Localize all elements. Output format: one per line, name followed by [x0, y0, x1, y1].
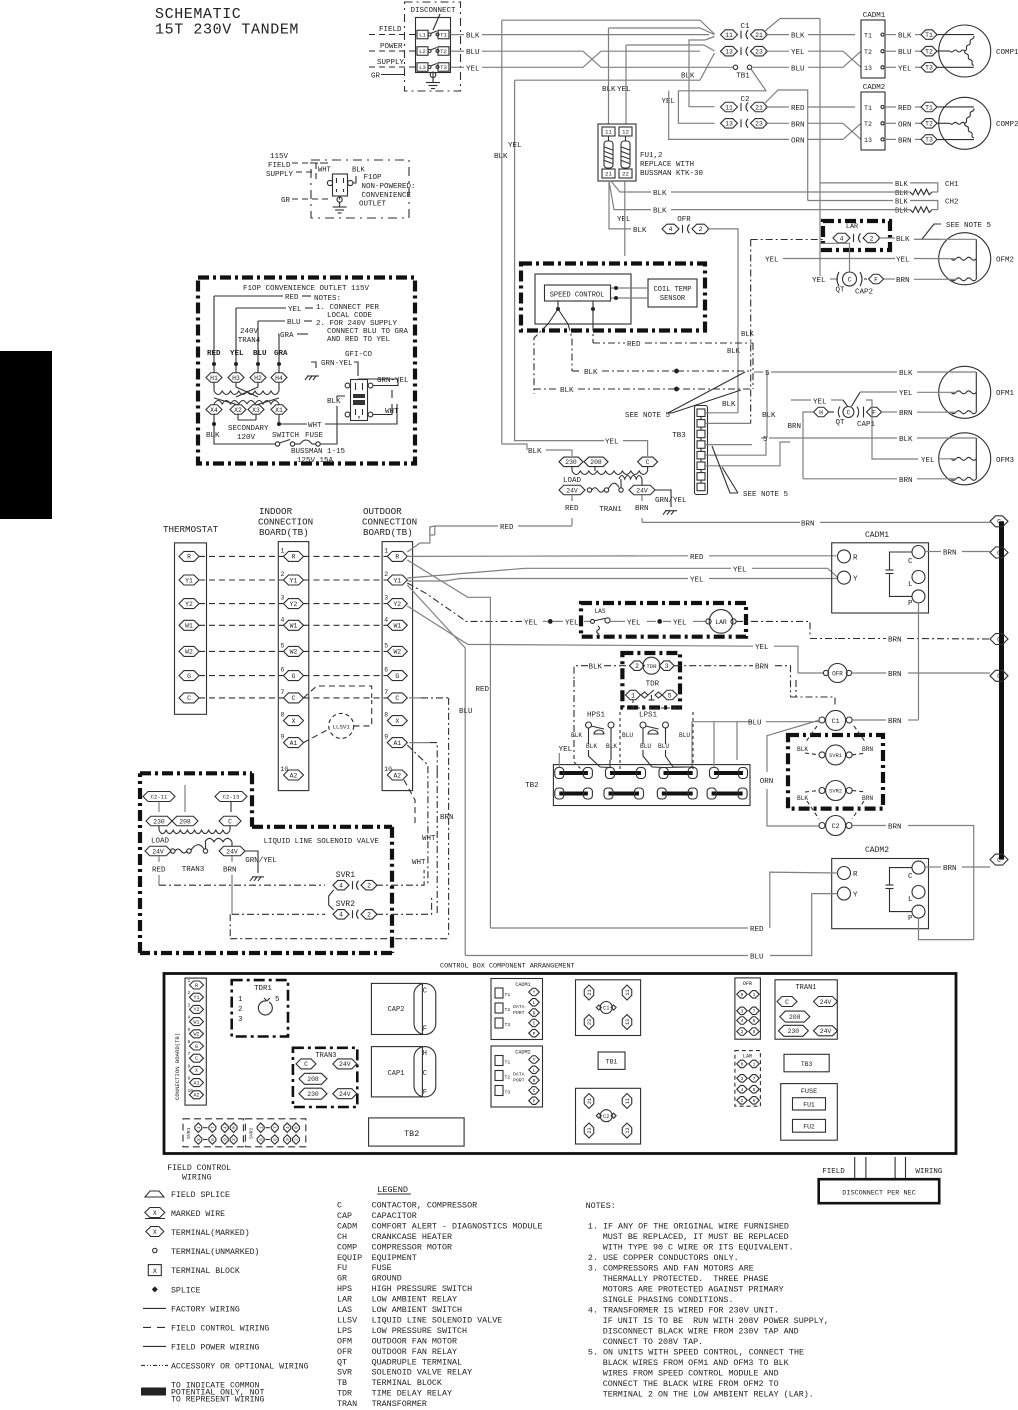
svg-text:BLK: BLK — [895, 190, 909, 198]
svg-text:T2: T2 — [864, 121, 872, 128]
svg-text:SVR: SVR — [337, 1368, 352, 1378]
svg-text:DISCONNECT PER NEC: DISCONNECT PER NEC — [842, 1190, 915, 1198]
svg-text:2: 2 — [188, 990, 191, 996]
svg-text:23: 23 — [587, 1127, 593, 1133]
wire YEL upper to CADM1 Y — [407, 568, 731, 578]
svg-text:BLK: BLK — [466, 33, 480, 41]
svg-text:CONNECT TO 208V TAP.: CONNECT TO 208V TAP. — [603, 1337, 704, 1347]
svg-text:BRN: BRN — [791, 121, 805, 129]
svg-text:H3: H3 — [232, 375, 240, 382]
svg-text:8: 8 — [197, 1138, 202, 1141]
TRAN3 primary winding — [158, 826, 160, 830]
svg-text:11: 11 — [725, 104, 733, 111]
svg-text:CAPACITOR: CAPACITOR — [372, 1211, 417, 1221]
svg-text:COMPRESSOR MOTOR: COMPRESSOR MOTOR — [372, 1242, 452, 1252]
svg-text:21: 21 — [755, 104, 763, 111]
svg-text:6: 6 — [281, 667, 285, 674]
svg-text:BRN: BRN — [888, 671, 902, 679]
svg-text:FIELD: FIELD — [268, 162, 291, 170]
svg-text:HPS: HPS — [337, 1284, 352, 1294]
svg-text:C: C — [533, 1021, 536, 1027]
wire C1 out BLK — [765, 34, 789, 36]
svg-text:5: 5 — [668, 692, 672, 699]
svg-text:FIELD CONTROL WIRING: FIELD CONTROL WIRING — [171, 1325, 269, 1334]
quadruple terminal QT with CAP1 — [814, 407, 829, 417]
svg-text:R: R — [187, 554, 191, 561]
svg-text:230: 230 — [153, 818, 165, 825]
svg-text:YEL: YEL — [690, 577, 704, 585]
svg-text:208: 208 — [590, 459, 602, 466]
svg-text:CADM1: CADM1 — [863, 12, 886, 20]
wire C2 out RED — [765, 106, 789, 108]
svg-text:MUST BE REPLACED, IT MUST BE R: MUST BE REPLACED, IT MUST BE REPLACED — [603, 1232, 789, 1242]
CADM2 R terminal — [838, 867, 851, 880]
svg-text:2: 2 — [295, 1138, 300, 1141]
svg-text:BLU: BLU — [287, 319, 301, 327]
svg-text:BLK: BLK — [741, 331, 755, 339]
crankcase heater CH2 — [808, 200, 893, 202]
svg-text:BRN: BRN — [898, 137, 912, 145]
svg-text:C2: C2 — [603, 1114, 609, 1120]
svg-text:BLK: BLK — [586, 743, 597, 750]
module CADM1 in control box — [491, 979, 543, 1040]
svg-text:T3: T3 — [505, 1090, 511, 1096]
svg-text:CAP: CAP — [337, 1211, 352, 1221]
svg-text:13: 13 — [625, 1019, 631, 1025]
wire from R down to RED riser — [407, 560, 490, 928]
svg-text:QT: QT — [835, 287, 845, 295]
svg-text:X: X — [195, 1068, 198, 1074]
svg-text:9: 9 — [281, 734, 285, 741]
wire ORN lower — [668, 138, 789, 140]
svg-text:24V: 24V — [339, 1091, 351, 1098]
svg-text:C: C — [228, 818, 232, 825]
svg-text:TERMINAL(MARKED): TERMINAL(MARKED) — [171, 1228, 250, 1238]
svg-text:208: 208 — [307, 1076, 319, 1083]
svg-text:NOTES:: NOTES: — [586, 1201, 616, 1211]
TRAN4 primary winding — [213, 383, 215, 392]
svg-text:OFR: OFR — [677, 216, 691, 224]
svg-text:BLU: BLU — [253, 350, 267, 358]
svg-text:21: 21 — [587, 989, 593, 995]
svg-text:RED: RED — [285, 294, 299, 302]
thermostat terminal G — [179, 671, 199, 681]
svg-text:TO REPRESENT WIRING: TO REPRESENT WIRING — [171, 1396, 264, 1405]
svg-text:4: 4 — [286, 1126, 291, 1129]
svg-text:IF UNIT IS TO BE RUN WITH 208: IF UNIT IS TO BE RUN WITH 208V POWER SUP… — [603, 1316, 829, 1326]
svg-text:ORN: ORN — [760, 778, 774, 786]
legend splice symbol — [152, 1286, 158, 1292]
outdoor A2 wire — [404, 780, 415, 826]
TDR coil 2-3 — [630, 661, 645, 671]
svg-text:BLU: BLU — [748, 720, 762, 728]
CADM2 P wire — [919, 918, 974, 940]
speed wire note5 run 2 — [761, 437, 767, 439]
svg-text:YEL: YEL — [673, 619, 687, 627]
legend field power wiring symbol — [143, 1345, 166, 1347]
svg-text:L: L — [533, 1067, 536, 1073]
svg-text:9: 9 — [223, 1138, 228, 1141]
wire feeder y20 BLK — [502, 20, 715, 34]
svg-text:208: 208 — [789, 1014, 801, 1021]
wire C2-21 riser to CH2 — [765, 90, 808, 201]
wire BRN long to right C — [642, 521, 800, 523]
svg-text:BRN: BRN — [755, 664, 769, 672]
svg-text:WHT: WHT — [318, 167, 331, 175]
svg-text:T1: T1 — [864, 105, 872, 112]
disconnect pole L2-T2 — [417, 47, 428, 56]
control box outline — [164, 974, 956, 1154]
CADM1 P wire down — [918, 603, 920, 720]
svg-text:R: R — [395, 554, 399, 561]
TB2 jumper bottom — [662, 792, 693, 796]
indoor to outdoor dashed wires — [304, 555, 388, 557]
fuse cartridge — [608, 136, 610, 141]
outlet ground — [337, 197, 342, 202]
svg-text:LPS: LPS — [337, 1326, 352, 1336]
CADM1 R terminal — [838, 550, 851, 563]
svg-text:7: 7 — [384, 689, 388, 696]
svg-text:2: 2 — [367, 883, 371, 890]
svg-text:W2: W2 — [185, 649, 193, 656]
svg-text:C: C — [423, 987, 427, 995]
svg-text:FUSE: FUSE — [801, 1088, 817, 1096]
svg-text:11: 11 — [625, 1098, 631, 1104]
svg-text:FU1,2: FU1,2 — [640, 152, 663, 160]
svg-text:BLK: BLK — [797, 795, 808, 802]
svg-text:T3: T3 — [925, 137, 933, 144]
F1OP outlet enclosure dashed — [316, 163, 330, 179]
svg-text:BLU: BLU — [791, 65, 805, 73]
svg-text:G: G — [195, 1044, 198, 1050]
svg-text:Y2: Y2 — [290, 601, 298, 608]
svg-text:L: L — [533, 1000, 536, 1006]
wire BLU into CADM2 Y — [465, 955, 748, 957]
svg-text:SEE NOTE 5: SEE NOTE 5 — [946, 222, 992, 230]
svg-text:LAR: LAR — [846, 223, 858, 231]
svg-text:YEL: YEL — [508, 142, 522, 150]
wire BLK from fuse 21 to OFR — [609, 181, 631, 229]
svg-text:1: 1 — [753, 992, 756, 998]
svg-text:1: 1 — [238, 996, 243, 1004]
wire BLU from T2 — [451, 50, 465, 52]
thermostat terminal Y1 — [179, 575, 199, 585]
svg-text:BLU: BLU — [622, 732, 633, 739]
CADM1 to COMP1 wires — [884, 34, 896, 36]
C1 to SVR links — [805, 726, 817, 743]
svg-text:0: 0 — [741, 992, 744, 998]
svg-text:CAP2: CAP2 — [388, 1006, 405, 1014]
svg-text:230: 230 — [307, 1091, 319, 1098]
svg-text:YEL: YEL — [765, 257, 779, 265]
svg-text:NOTES:: NOTES: — [314, 295, 341, 303]
svg-text:C: C — [646, 459, 650, 466]
svg-text:C: C — [304, 1061, 308, 1068]
svg-text:OFM1: OFM1 — [996, 390, 1015, 398]
svg-text:BLK: BLK — [896, 236, 910, 244]
svg-text:F: F — [423, 1089, 427, 1097]
svg-text:7: 7 — [211, 1126, 216, 1129]
RED dash-dot to TB3 — [593, 342, 625, 344]
svg-text:BLK: BLK — [899, 370, 913, 378]
svg-text:1. IF ANY OF THE ORIGINAL WIRE: 1. IF ANY OF THE ORIGINAL WIRE FURNISHED — [588, 1222, 789, 1232]
transformer TRAN1 primary taps — [559, 457, 583, 467]
svg-text:YEL: YEL — [524, 619, 538, 627]
svg-text:GRN/YEL: GRN/YEL — [245, 857, 277, 865]
svg-text:BRN: BRN — [888, 637, 902, 645]
svg-text:TB: TB — [337, 1378, 347, 1388]
svg-text:RED: RED — [898, 105, 912, 113]
svg-text:7: 7 — [753, 1076, 756, 1082]
svg-text:TDR: TDR — [337, 1389, 352, 1399]
TB2 jumper bottom — [712, 792, 743, 796]
fuse block in control box — [781, 1084, 838, 1141]
svg-text:F: F — [872, 409, 876, 416]
svg-text:OFR: OFR — [743, 981, 752, 987]
svg-text:11: 11 — [725, 32, 733, 39]
svg-text:TRAN: TRAN — [337, 1399, 357, 1409]
svg-text:OUTDOOR FAN MOTOR: OUTDOOR FAN MOTOR — [372, 1336, 457, 1346]
disconnect switch blade — [433, 14, 440, 30]
svg-text:Y1: Y1 — [193, 995, 199, 1001]
TRAN1 primary winding — [571, 467, 573, 472]
svg-text:TERMINAL BLOCK: TERMINAL BLOCK — [171, 1267, 240, 1276]
CADM1 capacitor — [890, 552, 913, 570]
svg-text:CAP1: CAP1 — [388, 1070, 405, 1078]
sensor leads — [611, 287, 648, 289]
svg-text:CADM2: CADM2 — [865, 846, 889, 855]
svg-text:GRN-YEL: GRN-YEL — [321, 360, 353, 368]
svg-text:2. USE COPPER CONDUCTORS ONLY.: 2. USE COPPER CONDUCTORS ONLY. — [588, 1253, 739, 1263]
svg-text:GRN-YEL: GRN-YEL — [377, 377, 409, 385]
F1OP convenience outlet 115V enclosure — [198, 278, 415, 464]
svg-text:3: 3 — [741, 1076, 744, 1082]
svg-text:4: 4 — [188, 1015, 191, 1021]
svg-text:24V: 24V — [226, 848, 238, 855]
svg-text:LOW AMBIENT RELAY: LOW AMBIENT RELAY — [372, 1295, 457, 1305]
svg-text:CAP2: CAP2 — [855, 289, 873, 297]
svg-text:Y2: Y2 — [393, 601, 401, 608]
svg-text:TB1: TB1 — [606, 1059, 618, 1066]
TRAN4 primary cross links — [236, 387, 258, 397]
svg-text:CONNECTION: CONNECTION — [258, 517, 313, 528]
svg-text:4: 4 — [741, 1018, 744, 1024]
svg-text:YEL: YEL — [627, 619, 641, 627]
svg-text:AND RED TO YEL: AND RED TO YEL — [327, 336, 391, 344]
legend field control wiring symbol — [143, 1326, 166, 1328]
svg-text:R: R — [195, 983, 198, 989]
svg-text:BLK: BLK — [895, 208, 909, 216]
wire C1-21 riser — [765, 19, 820, 32]
LLSV1 accessory valve — [329, 713, 354, 738]
svg-text:4: 4 — [669, 226, 673, 233]
svg-text:EQUIP: EQUIP — [337, 1253, 362, 1263]
svg-text:WIRING: WIRING — [182, 1174, 212, 1183]
svg-text:6: 6 — [753, 1098, 756, 1104]
svg-text:T1: T1 — [505, 992, 511, 998]
svg-text:R: R — [533, 1078, 536, 1084]
svg-text:GFI-CO: GFI-CO — [345, 351, 373, 359]
svg-text:240V: 240V — [240, 328, 259, 336]
svg-text:T3: T3 — [440, 64, 447, 71]
svg-text:GR: GR — [371, 73, 381, 81]
svg-text:BRN: BRN — [888, 718, 902, 726]
svg-text:YEL: YEL — [605, 439, 619, 447]
svg-text:3: 3 — [281, 595, 285, 602]
svg-text:SUPPLY: SUPPLY — [377, 59, 405, 67]
svg-text:6: 6 — [273, 1138, 278, 1141]
svg-text:NON-POWERED:: NON-POWERED: — [362, 183, 416, 191]
svg-text:CONVENIENCE: CONVENIENCE — [362, 192, 412, 200]
right edge common bus — [999, 521, 1004, 859]
svg-text:CH2: CH2 — [945, 199, 959, 207]
svg-text:10: 10 — [188, 1088, 194, 1094]
terminal block TB2 in control box — [369, 1118, 465, 1146]
svg-text:5: 5 — [281, 642, 285, 649]
fuse cartridge — [625, 136, 627, 141]
svg-text:WIRING: WIRING — [915, 1168, 943, 1176]
svg-text:BLK: BLK — [653, 190, 667, 198]
svg-text:TB3: TB3 — [672, 432, 686, 440]
svg-text:YEL: YEL — [921, 457, 935, 465]
svg-text:W1: W1 — [290, 623, 298, 630]
svg-text:CADM: CADM — [337, 1221, 357, 1231]
low ambient switch LAS enclosure — [581, 603, 746, 637]
svg-text:L: L — [908, 896, 913, 904]
svg-text:Y2: Y2 — [185, 601, 193, 608]
svg-text:125V 15A: 125V 15A — [297, 457, 334, 465]
svg-text:L1: L1 — [419, 32, 426, 39]
svg-text:WITH TYPE 90 C WIRE OR ITS EQU: WITH TYPE 90 C WIRE OR ITS EQUIVALENT. — [603, 1243, 794, 1253]
CADM2 capacitor — [890, 868, 913, 885]
svg-text:BRN: BRN — [223, 867, 237, 875]
svg-text:TB2: TB2 — [404, 1129, 419, 1139]
legend terminal block symbol — [148, 1265, 161, 1276]
svg-text:Y: Y — [533, 1057, 536, 1063]
svg-text:CONNECTION: CONNECTION — [362, 517, 417, 528]
svg-text:F: F — [423, 1026, 427, 1034]
TB2 jumper top — [610, 771, 641, 775]
svg-text:T2: T2 — [864, 49, 872, 56]
svg-text:RED: RED — [565, 505, 579, 513]
svg-text:4: 4 — [741, 1087, 744, 1093]
svg-text:C2: C2 — [832, 823, 840, 830]
svg-text:13: 13 — [625, 1127, 631, 1133]
relay SVR1 terminals in control box — [183, 1119, 243, 1147]
transformer TRAN3 taps — [146, 816, 172, 826]
svg-text:FIELD: FIELD — [379, 26, 402, 34]
wire BLK to TRAN1 230 tap — [502, 444, 528, 450]
svg-text:6: 6 — [188, 1039, 191, 1045]
svg-text:COMFORT ALERT - DIAGNOSTICS MO: COMFORT ALERT - DIAGNOSTICS MODULE — [372, 1221, 543, 1231]
svg-text:L: L — [908, 581, 913, 589]
svg-text:GRA: GRA — [274, 350, 288, 358]
svg-text:3: 3 — [384, 595, 388, 602]
outdoor fan motor OFM2 — [939, 233, 991, 285]
svg-text:G: G — [187, 673, 191, 680]
svg-text:4. TRANSFORMER IS WIRED FOR 23: 4. TRANSFORMER IS WIRED FOR 230V UNIT. — [588, 1306, 779, 1316]
svg-text:ORN: ORN — [898, 121, 912, 129]
coil temp sensor — [648, 279, 697, 307]
wire dash to LAS YEL — [407, 583, 522, 621]
svg-text:EQUIPMENT: EQUIPMENT — [372, 1253, 417, 1263]
LAS to LAR wire — [614, 620, 625, 622]
svg-text:23: 23 — [587, 1019, 593, 1025]
svg-text:R: R — [853, 871, 858, 879]
svg-text:SCHEMATIC: SCHEMATIC — [155, 6, 241, 23]
svg-text:OFM3: OFM3 — [996, 457, 1015, 465]
CADM2 L terminal — [912, 886, 925, 899]
svg-text:R: R — [533, 1010, 536, 1016]
outdoor C dash-dot — [409, 697, 421, 699]
svg-text:C2-13: C2-13 — [223, 794, 240, 801]
svg-text:BLK: BLK — [762, 412, 776, 420]
svg-text:BLK: BLK — [898, 33, 912, 41]
svg-text:T2: T2 — [925, 49, 933, 56]
wires from fuse 21 to CH — [611, 181, 651, 192]
svg-text:2: 2 — [232, 1138, 237, 1141]
svg-text:FU: FU — [337, 1263, 347, 1273]
svg-text:C: C — [997, 550, 1001, 557]
svg-text:4: 4 — [223, 1126, 228, 1129]
SVR enclosure — [788, 735, 883, 809]
CADM2 C terminal — [912, 861, 925, 874]
svg-text:T1: T1 — [925, 104, 933, 111]
svg-text:BLK: BLK — [602, 86, 616, 94]
svg-text:BRN: BRN — [899, 477, 913, 485]
svg-text:SENSOR: SENSOR — [660, 295, 686, 303]
svg-text:3: 3 — [741, 1008, 744, 1014]
CADM2 input crossover — [843, 123, 861, 139]
svg-text:X3: X3 — [252, 407, 260, 414]
outdoor fan motor OFM3 — [939, 433, 991, 485]
TB2 jumper top — [714, 771, 743, 775]
legend terminal unmarked symbol — [153, 1248, 157, 1252]
svg-text:6: 6 — [384, 667, 388, 674]
svg-text:GR: GR — [281, 197, 291, 205]
svg-text:YEL: YEL — [288, 306, 302, 314]
svg-text:2: 2 — [238, 1006, 242, 1014]
svg-text:15T 230V TANDEM: 15T 230V TANDEM — [155, 22, 299, 39]
svg-text:C: C — [423, 1070, 427, 1078]
TRAN4 secondary winding — [214, 401, 247, 405]
svg-text:SVR1: SVR1 — [336, 871, 355, 880]
svg-text:COIL TEMP: COIL TEMP — [654, 286, 692, 294]
wire ORN drop — [668, 91, 670, 140]
svg-text:YEL: YEL — [896, 257, 910, 265]
YEL drop right — [866, 400, 872, 455]
svg-text:4: 4 — [281, 616, 285, 623]
SVR dash-dot to WHT risers — [376, 870, 424, 885]
svg-text:23: 23 — [755, 121, 763, 128]
vertical BLK x501 to TRAN1 — [501, 20, 503, 444]
svg-text:A2: A2 — [290, 772, 298, 779]
svg-text:A2: A2 — [193, 1093, 199, 1099]
svg-text:BRN: BRN — [787, 423, 801, 431]
svg-text:QT: QT — [337, 1357, 347, 1367]
svg-text:BLU: BLU — [679, 732, 690, 739]
svg-text:BLK: BLK — [727, 348, 741, 356]
wire YEL from T3 — [451, 66, 465, 68]
svg-text:CADM1: CADM1 — [865, 531, 889, 540]
svg-text:LAR: LAR — [337, 1295, 352, 1305]
svg-text:TB2: TB2 — [525, 782, 539, 790]
svg-text:G: G — [395, 673, 399, 680]
TRAN4 secondary terminals — [213, 404, 215, 405]
svg-text:SOLENOID VALVE RELAY: SOLENOID VALVE RELAY — [372, 1368, 473, 1378]
svg-text:LPS1: LPS1 — [639, 712, 658, 720]
accessory C2 terminals — [143, 792, 175, 802]
